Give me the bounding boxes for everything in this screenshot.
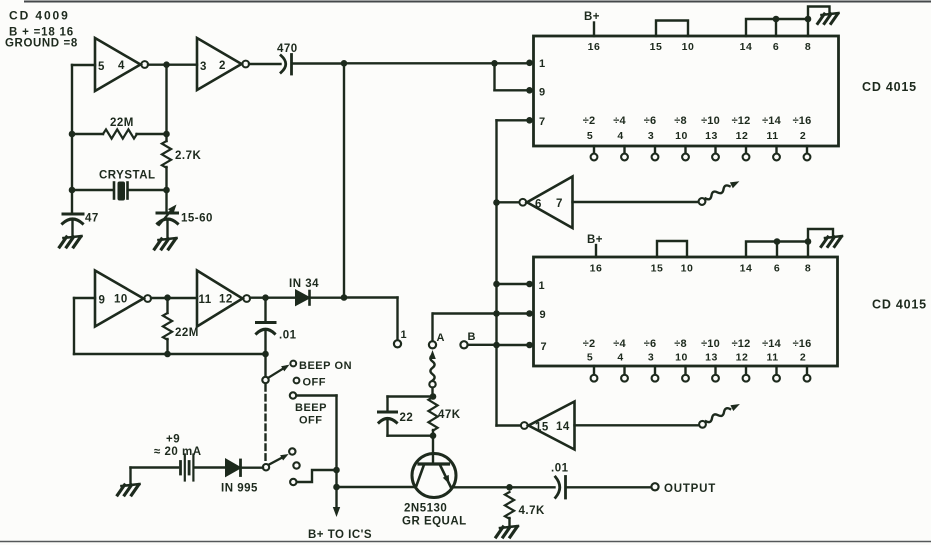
IC U2 CD4015 body bbox=[534, 36, 839, 146]
ground below 15-60 bbox=[159, 238, 177, 240]
crystal Y1 bbox=[72, 189, 113, 191]
pin 9 IC1 connection bbox=[526, 87, 533, 94]
node left crystal junction bbox=[69, 187, 76, 194]
svg-text:4.7K: 4.7K bbox=[519, 505, 545, 517]
svg-text:14: 14 bbox=[740, 263, 753, 275]
pin 1 IC1 connection bbox=[526, 60, 533, 67]
svg-text:13: 13 bbox=[705, 130, 718, 142]
wire 8 to ground IC2 bbox=[808, 229, 833, 242]
svg-text:10: 10 bbox=[682, 41, 695, 53]
transistor collector leg bbox=[417, 466, 424, 486]
wire 470 junction down bbox=[343, 63, 345, 297]
svg-text:9: 9 bbox=[539, 87, 546, 99]
svg-text:÷14: ÷14 bbox=[762, 338, 782, 350]
svg-text:÷12: ÷12 bbox=[732, 115, 751, 127]
contact S1b upper bbox=[289, 448, 295, 454]
node 6 junction IC1 bbox=[773, 16, 780, 23]
svg-text:÷8: ÷8 bbox=[674, 115, 687, 127]
svg-text:OFF: OFF bbox=[303, 377, 327, 389]
wire U1f output bbox=[575, 424, 700, 426]
wire input U1a bbox=[72, 64, 95, 66]
node pin1 IC2 junction bbox=[493, 281, 500, 288]
svg-text:2N5130: 2N5130 bbox=[404, 503, 447, 515]
output terminal pin 3 IC1 bbox=[654, 146, 656, 154]
svg-text:6: 6 bbox=[535, 199, 542, 211]
wire B to bus bbox=[468, 344, 497, 346]
ground battery bbox=[122, 484, 140, 486]
svg-text:15: 15 bbox=[651, 263, 664, 275]
node 8 junction IC1 bbox=[805, 16, 812, 23]
op-amp U1b inverter pins 3-2 bbox=[197, 38, 242, 90]
diode D1 IN34 bbox=[296, 291, 309, 305]
svg-text:BEEP ON: BEEP ON bbox=[299, 360, 352, 372]
node bus-base junction bbox=[333, 484, 340, 491]
svg-text:2: 2 bbox=[800, 352, 806, 364]
wire U1c bubble stub bbox=[497, 201, 519, 203]
contact S1b middle bbox=[293, 462, 299, 468]
jumper 15-10 IC1 bbox=[656, 21, 688, 37]
wire to pin1 IC2 bbox=[497, 283, 529, 285]
svg-text:15-60: 15-60 bbox=[181, 213, 213, 225]
node pin7 IC2 junction bbox=[493, 342, 500, 349]
node U1d output junction bbox=[164, 294, 171, 301]
output terminal pin 11 IC1 bbox=[775, 146, 777, 154]
svg-text:10: 10 bbox=[681, 263, 694, 275]
svg-text:A: A bbox=[437, 332, 445, 344]
svg-text:1: 1 bbox=[539, 58, 546, 70]
svg-text:4: 4 bbox=[617, 352, 623, 364]
svg-text:1: 1 bbox=[539, 280, 546, 292]
svg-text:÷10: ÷10 bbox=[701, 338, 720, 350]
ground below 47 bbox=[64, 236, 82, 238]
wire bus down to IC2 bbox=[495, 203, 497, 285]
capacitor 22 bbox=[379, 411, 397, 414]
svg-text:4: 4 bbox=[617, 130, 623, 142]
svg-text:÷16: ÷16 bbox=[793, 338, 812, 350]
svg-text:6: 6 bbox=[774, 263, 780, 275]
svg-text:B+ TO IC'S: B+ TO IC'S bbox=[308, 529, 372, 541]
terminal A bbox=[429, 341, 436, 348]
svg-text:14: 14 bbox=[556, 421, 570, 433]
switch S1a pivot bbox=[262, 377, 268, 383]
svg-text:8: 8 bbox=[805, 41, 811, 53]
resistor 4.7K bbox=[505, 492, 514, 519]
node 470 junction bbox=[341, 60, 348, 67]
contact BEEP OFF pole bbox=[290, 392, 296, 398]
node 8 junction IC2 bbox=[805, 238, 812, 245]
wire to pin7 IC2 bbox=[497, 344, 529, 346]
svg-text:2: 2 bbox=[800, 130, 806, 142]
svg-text:9: 9 bbox=[540, 309, 547, 321]
switch S1b blade bbox=[269, 456, 285, 465]
ground below 4.7K bbox=[500, 526, 518, 528]
wire ground to battery bbox=[129, 468, 131, 485]
top border line bbox=[25, 1, 931, 3]
wire to S1a pivot bbox=[264, 354, 266, 377]
terminal 1 bbox=[394, 340, 401, 347]
wire S1b lower to bus bbox=[297, 470, 337, 482]
svg-text:10: 10 bbox=[675, 352, 688, 364]
svg-text:GROUND =8: GROUND =8 bbox=[5, 38, 78, 50]
trimmer capacitor 15-60 bbox=[165, 190, 167, 211]
bottom border line bbox=[0, 541, 931, 543]
flying lead squiggle to A bbox=[429, 350, 436, 359]
wire 47K to base bbox=[432, 436, 434, 464]
wire bus pin9-pin7 IC2 bbox=[495, 314, 497, 346]
diode D2 IN995 bbox=[226, 460, 240, 476]
svg-text:CD 4009: CD 4009 bbox=[9, 9, 70, 23]
terminal U1c lead bbox=[699, 198, 706, 205]
wire left feedback vertical bbox=[71, 65, 73, 213]
wire node A horizontal bbox=[433, 312, 497, 314]
op-amp U1d inverter pins 9-10 bbox=[95, 271, 144, 327]
svg-text:2.7K: 2.7K bbox=[175, 150, 201, 162]
node clock-IC1 junction bbox=[491, 60, 498, 67]
wire B+ to pin16 IC2 bbox=[595, 245, 597, 257]
wire bus pin1-pin9 IC2 bbox=[495, 284, 497, 314]
svg-text:.01: .01 bbox=[551, 463, 569, 475]
terminal U1f lead bbox=[699, 421, 706, 428]
svg-text:22M: 22M bbox=[110, 117, 134, 129]
svg-text:47K: 47K bbox=[438, 409, 461, 421]
contact OFF bbox=[294, 378, 300, 384]
node U1a output junction bbox=[163, 61, 170, 68]
svg-text:÷14: ÷14 bbox=[762, 115, 782, 127]
node 47K-22 top junction bbox=[430, 393, 437, 400]
svg-text:11: 11 bbox=[766, 130, 778, 142]
svg-text:12: 12 bbox=[736, 352, 749, 364]
svg-text:5: 5 bbox=[98, 61, 105, 73]
ground top right IC2 bbox=[825, 236, 842, 238]
transistor emitter leg bbox=[441, 466, 452, 488]
capacitor 22 bracket bbox=[388, 395, 434, 397]
flying lead squiggle U1f bbox=[706, 408, 730, 422]
wire U1e out bbox=[250, 297, 296, 299]
svg-text:÷8: ÷8 bbox=[674, 338, 687, 350]
arrow B+ to ICs bbox=[333, 507, 340, 517]
output terminal pin 5 IC2 bbox=[593, 366, 595, 375]
wire U1c output bbox=[573, 201, 699, 203]
wire bus to pin9 IC1 bbox=[493, 63, 495, 90]
output terminal pin 10 IC1 bbox=[684, 146, 686, 154]
svg-text:1: 1 bbox=[401, 329, 408, 341]
svg-text:+9: +9 bbox=[166, 434, 180, 446]
wire B+ to pin16 IC1 bbox=[593, 23, 595, 37]
flying lead squiggle U1c bbox=[706, 185, 730, 199]
terminal B bbox=[460, 341, 467, 348]
op-amp U1f inverter pins 15-14 bbox=[529, 402, 575, 450]
svg-text:3: 3 bbox=[648, 352, 654, 364]
svg-text:12: 12 bbox=[219, 294, 233, 306]
node right 22M junction bbox=[163, 131, 170, 138]
svg-text:11: 11 bbox=[766, 352, 778, 364]
output terminal pin 2 IC2 bbox=[806, 366, 808, 375]
wire to terminal 1 bbox=[344, 296, 398, 298]
svg-text:B: B bbox=[468, 331, 476, 343]
svg-text:BEEP: BEEP bbox=[295, 402, 327, 414]
capacitor .01 osc bbox=[264, 298, 266, 322]
jumper 15-10 IC2 bbox=[657, 241, 687, 257]
svg-text:7: 7 bbox=[539, 116, 546, 128]
wire BEEP OFF pole to bus bbox=[297, 394, 337, 396]
svg-text:10: 10 bbox=[114, 294, 128, 306]
output terminal pin 12 IC1 bbox=[745, 146, 747, 154]
output terminal pin 13 IC1 bbox=[714, 146, 716, 154]
op-amp U1e inverter pins 11-12 bbox=[197, 271, 243, 327]
wire feedback U1d bbox=[74, 297, 95, 299]
svg-text:22M: 22M bbox=[175, 327, 199, 339]
IC U3 CD4015 body bbox=[534, 257, 838, 366]
svg-text:OUTPUT: OUTPUT bbox=[664, 483, 716, 495]
capacitor 47 bbox=[63, 213, 83, 216]
svg-text:CD 4015: CD 4015 bbox=[872, 298, 927, 312]
wire U1a out down bbox=[165, 65, 167, 141]
svg-text:6: 6 bbox=[773, 41, 779, 53]
node switch S1a junction bbox=[262, 351, 269, 358]
ground top right IC1 bbox=[821, 13, 838, 15]
wire to pin9 IC2 bbox=[497, 312, 529, 314]
wire bus to Q1 bbox=[337, 486, 415, 488]
node 6 junction IC2 bbox=[774, 238, 781, 245]
output terminal pin 3 IC2 bbox=[654, 366, 656, 375]
svg-text:22: 22 bbox=[400, 412, 414, 424]
svg-text:16: 16 bbox=[590, 263, 603, 275]
node left 22M junction bbox=[69, 131, 76, 138]
svg-text:4: 4 bbox=[118, 60, 125, 72]
svg-text:CD 4015: CD 4015 bbox=[862, 80, 917, 94]
svg-text:GR EQUAL: GR EQUAL bbox=[402, 516, 467, 528]
contact BEEP ON bbox=[290, 361, 296, 367]
node bus-470 junction bbox=[333, 467, 340, 474]
svg-text:B+: B+ bbox=[584, 11, 600, 23]
battery B1 +9 bbox=[179, 462, 182, 475]
svg-text:÷4: ÷4 bbox=[613, 115, 626, 127]
svg-text:IN 995: IN 995 bbox=[221, 483, 258, 495]
output terminal pin 13 IC2 bbox=[714, 366, 716, 375]
wire Q1 to output node bbox=[455, 486, 511, 488]
wire 47K top bbox=[431, 388, 433, 398]
output terminal pin 4 IC1 bbox=[623, 146, 625, 154]
pin 7 IC1 connection bbox=[526, 117, 533, 124]
svg-text:8: 8 bbox=[805, 263, 811, 275]
output terminal pin 12 IC2 bbox=[745, 366, 747, 375]
node inverter U1c input junction bbox=[493, 199, 500, 206]
capacitor 470 bbox=[249, 63, 281, 65]
svg-text:÷6: ÷6 bbox=[644, 338, 657, 350]
node pin9 IC2 junction bbox=[493, 310, 500, 317]
wire B+ bus vertical bbox=[335, 396, 337, 512]
output terminal pin 10 IC2 bbox=[684, 366, 686, 375]
op-amp U1c inverter pins 6-7 bbox=[527, 177, 573, 229]
svg-text:15: 15 bbox=[650, 41, 663, 53]
dashed gang linkage bbox=[264, 385, 266, 462]
svg-text:11: 11 bbox=[199, 294, 212, 306]
svg-text:3: 3 bbox=[200, 61, 207, 73]
svg-text:÷12: ÷12 bbox=[732, 338, 751, 350]
svg-text:14: 14 bbox=[740, 41, 753, 53]
svg-text:16: 16 bbox=[588, 41, 601, 53]
wire clock bus horizontal bbox=[344, 62, 528, 64]
svg-text:.01: .01 bbox=[279, 330, 297, 342]
svg-text:÷4: ÷4 bbox=[613, 338, 626, 350]
svg-text:12: 12 bbox=[736, 130, 749, 142]
node IN34 output junction bbox=[341, 294, 348, 301]
resistor 47K bbox=[428, 397, 437, 431]
svg-text:7: 7 bbox=[556, 198, 563, 210]
output terminal pin 4 IC2 bbox=[623, 366, 625, 375]
svg-text:47: 47 bbox=[85, 213, 99, 225]
svg-text:÷10: ÷10 bbox=[701, 115, 720, 127]
svg-text:470: 470 bbox=[277, 43, 298, 55]
output terminal pin 2 IC1 bbox=[806, 146, 808, 154]
wire 14-6-8 IC1 bbox=[746, 19, 808, 36]
transistor base bar bbox=[419, 462, 449, 465]
svg-text:10: 10 bbox=[675, 130, 688, 142]
node U1e output junction bbox=[262, 294, 269, 301]
resistor 22M vertical bbox=[166, 298, 168, 313]
wire U1d out to U1e in bbox=[151, 297, 197, 299]
contact S1b lower bbox=[290, 479, 296, 485]
op-amp U1a inverter pins 5-4 bbox=[95, 38, 141, 91]
wire 8 to ground IC1 bbox=[808, 7, 830, 20]
resistor 2.7K vertical bbox=[162, 141, 171, 168]
svg-text:5: 5 bbox=[587, 352, 593, 364]
svg-text:2: 2 bbox=[219, 60, 226, 72]
switch S1b pivot bbox=[263, 464, 269, 470]
transistor Q1 2N5130 body bbox=[412, 454, 456, 498]
output terminal pin 5 IC1 bbox=[593, 146, 595, 154]
svg-text:÷6: ÷6 bbox=[644, 115, 657, 127]
wire bus down to U1f bbox=[495, 345, 497, 426]
wire battery to diode bbox=[195, 466, 227, 468]
svg-text:OFF: OFF bbox=[299, 415, 323, 427]
svg-text:5: 5 bbox=[587, 130, 593, 142]
svg-text:15: 15 bbox=[535, 422, 549, 434]
output terminal pin 11 IC2 bbox=[775, 366, 777, 375]
svg-text:≈ 20 mA: ≈ 20 mA bbox=[154, 446, 202, 458]
svg-text:IN 34: IN 34 bbox=[289, 278, 319, 290]
svg-text:÷2: ÷2 bbox=[583, 338, 596, 350]
wire A up bbox=[431, 314, 433, 342]
wire U1a out to U1b in bbox=[148, 63, 197, 65]
svg-text:13: 13 bbox=[705, 352, 718, 364]
terminal 47K top bbox=[429, 381, 435, 387]
node right crystal junction bbox=[163, 187, 170, 194]
wire pin7 IC1 to bus bbox=[497, 119, 530, 121]
wire 14-6-8 IC2 bbox=[746, 242, 808, 258]
svg-text:÷16: ÷16 bbox=[793, 115, 812, 127]
node 47K-22 bottom junction bbox=[430, 432, 437, 439]
capacitor .01 output bbox=[556, 477, 560, 498]
wire emitter to .01 cap bbox=[510, 486, 555, 488]
switch S1a blade bbox=[268, 367, 286, 378]
svg-text:7: 7 bbox=[541, 341, 548, 353]
terminal OUTPUT bbox=[651, 483, 658, 490]
pin 9 IC2 connection bbox=[526, 310, 533, 317]
node emitter junction bbox=[506, 484, 513, 491]
pin 1 IC2 connection bbox=[526, 281, 533, 288]
svg-text:CRYSTAL: CRYSTAL bbox=[99, 170, 156, 182]
svg-text:9: 9 bbox=[99, 295, 106, 307]
node 22M bottom junction bbox=[164, 351, 171, 358]
resistor 22M horizontal bbox=[103, 129, 137, 138]
svg-text:÷2: ÷2 bbox=[583, 115, 596, 127]
svg-text:3: 3 bbox=[648, 130, 654, 142]
pin 7 IC2 connection bbox=[526, 342, 533, 349]
